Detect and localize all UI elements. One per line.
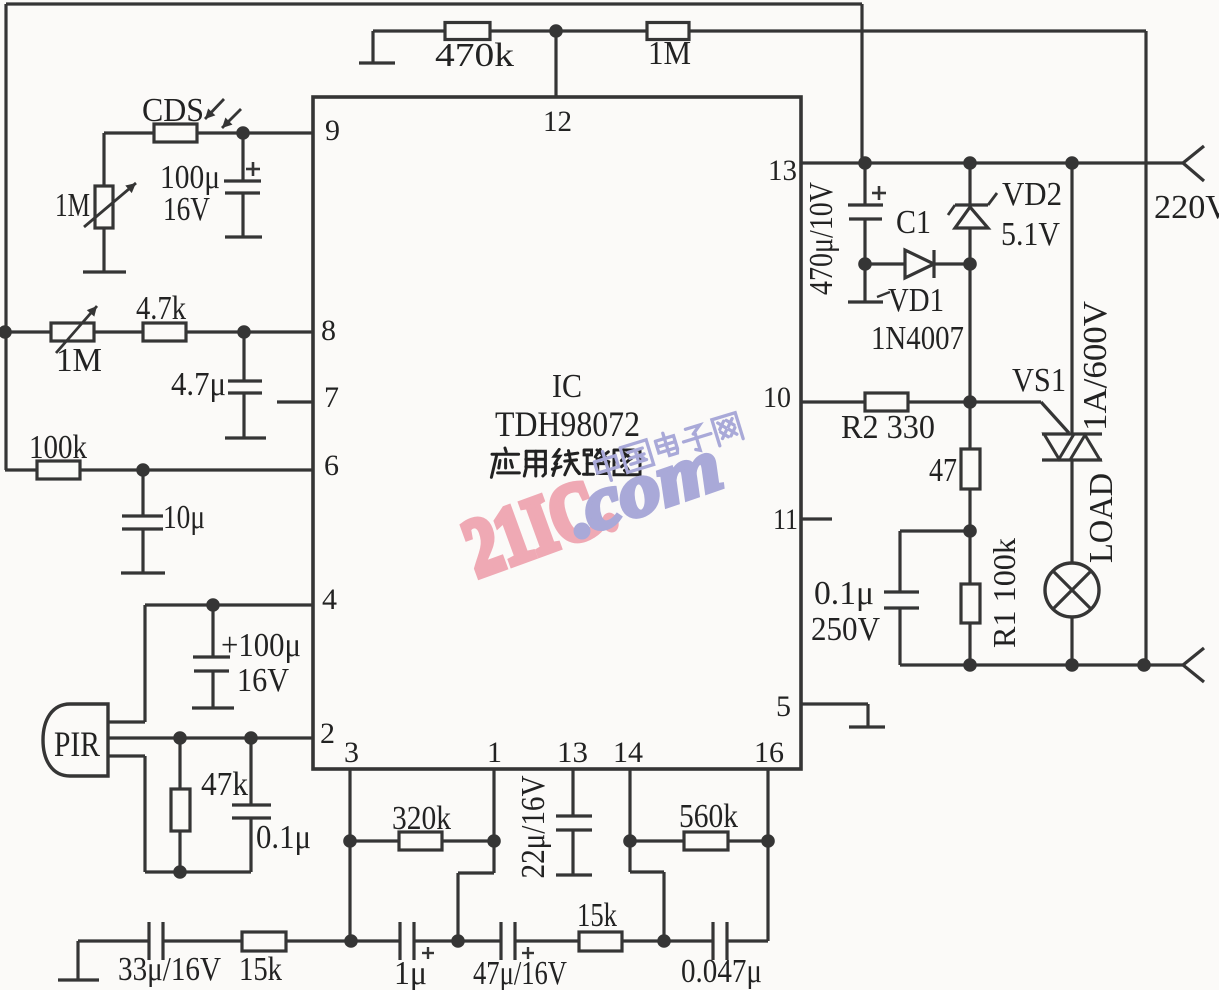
svg-text:0.047μ: 0.047μ (681, 953, 762, 990)
svg-text:220V: 220V (1154, 189, 1219, 226)
svg-text:7: 7 (324, 381, 339, 414)
svg-text:16: 16 (754, 736, 784, 769)
svg-text:22μ/16V: 22μ/16V (515, 775, 552, 878)
svg-text:470k: 470k (435, 37, 514, 74)
svg-text:1M: 1M (648, 35, 691, 72)
svg-text:+100μ: +100μ (221, 627, 301, 664)
svg-text:2: 2 (320, 717, 335, 750)
svg-text:1: 1 (487, 736, 502, 769)
svg-text:VS1: VS1 (1012, 362, 1066, 399)
svg-text:33μ/16V: 33μ/16V (118, 951, 221, 988)
svg-text:5.1V: 5.1V (1001, 216, 1060, 253)
svg-text:CDS: CDS (142, 92, 204, 129)
svg-text:LOAD: LOAD (1083, 473, 1120, 563)
svg-text:R2 330: R2 330 (841, 409, 935, 446)
svg-text:47μ/16V: 47μ/16V (473, 955, 567, 990)
svg-text:VD1: VD1 (888, 282, 944, 319)
svg-text:4.7k: 4.7k (136, 290, 186, 327)
svg-text:13: 13 (768, 154, 797, 187)
svg-text:47k: 47k (201, 766, 248, 803)
svg-text:1M: 1M (55, 187, 90, 224)
svg-text:12: 12 (543, 105, 572, 138)
svg-text:560k: 560k (679, 798, 738, 835)
svg-text:6: 6 (324, 449, 339, 482)
svg-text:10μ: 10μ (163, 499, 205, 536)
svg-text:9: 9 (325, 114, 340, 147)
svg-text:1A/600V: 1A/600V (1077, 301, 1114, 431)
svg-text:5: 5 (776, 690, 791, 723)
svg-text:100k: 100k (29, 429, 87, 466)
svg-text:14: 14 (613, 736, 643, 769)
svg-text:1M: 1M (56, 342, 102, 379)
svg-text:1N4007: 1N4007 (871, 320, 964, 357)
svg-text:4.7μ: 4.7μ (171, 366, 226, 403)
svg-text:320k: 320k (392, 800, 451, 837)
svg-text:1μ: 1μ (394, 955, 427, 990)
svg-text:PIR: PIR (54, 724, 100, 764)
svg-text:13: 13 (557, 736, 588, 769)
svg-text:3: 3 (344, 736, 359, 769)
svg-text:0.1μ: 0.1μ (814, 575, 874, 612)
svg-text:250V: 250V (811, 611, 880, 648)
svg-text:VD2: VD2 (1002, 176, 1062, 213)
svg-text:47: 47 (929, 452, 957, 489)
svg-text:470μ/10V: 470μ/10V (803, 182, 840, 295)
svg-text:4: 4 (322, 583, 337, 616)
svg-text:8: 8 (321, 314, 336, 347)
svg-text:C1: C1 (896, 204, 931, 241)
svg-text:R1 100k: R1 100k (986, 538, 1022, 648)
svg-text:IC: IC (552, 368, 582, 405)
svg-text:16V: 16V (237, 662, 289, 699)
svg-text:16V: 16V (163, 191, 210, 228)
svg-text:11: 11 (773, 503, 798, 536)
svg-text:15k: 15k (239, 951, 282, 988)
svg-text:15k: 15k (577, 897, 617, 934)
svg-text:10: 10 (763, 381, 791, 414)
svg-text:0.1μ: 0.1μ (256, 819, 311, 856)
svg-text:TDH98072: TDH98072 (495, 404, 640, 444)
